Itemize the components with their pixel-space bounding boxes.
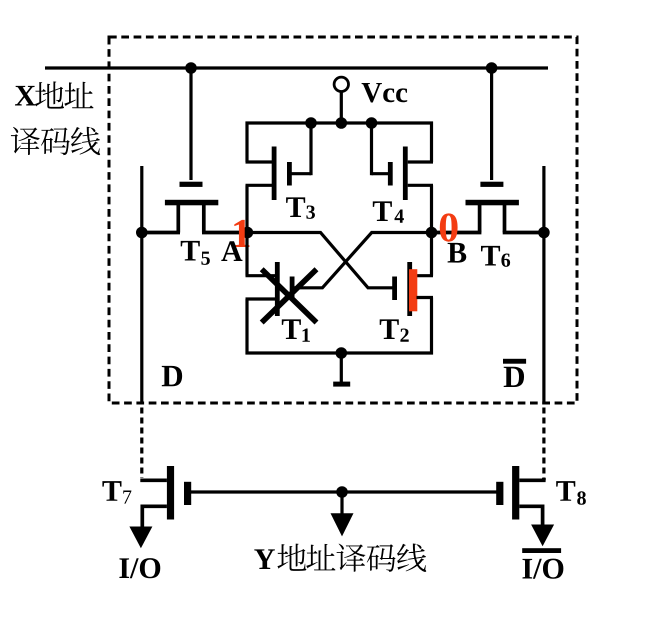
junction dot rail/T4 gate [366,117,378,129]
label I/O-bar overline [522,548,561,553]
transistor T2 gate bar [392,277,397,301]
transistor T5 right wire to node A [202,204,206,233]
junction dot on X line at T6 gate [486,62,498,74]
transistor T3 gate bar [287,162,292,186]
transistor T3 channel bar [272,147,277,201]
junction dot rail/Vcc stem [336,117,348,129]
wire: node B to T1 gate (cross-coupling) [294,233,432,288]
red conducting channel highlight bar on T2 [409,269,417,311]
label D-bar [504,367,524,387]
label: 译码线 (line 2) [11,127,40,155]
junction dot bit line D-bar / T6 [538,227,550,239]
transistor T2 channel bar [407,262,412,316]
node A junction dot [242,227,254,239]
ground bar symbol [333,382,350,387]
arrowhead on Y address line [331,513,354,536]
label T7 [102,481,121,501]
transistor T8 source wire down [519,504,542,508]
red logic value 0 at node B [440,213,458,241]
label T6 [481,246,500,266]
transistor T6 left wire to node B [478,204,482,233]
transistor T1 drain wire from node A [245,233,248,276]
junction dot on Y line [336,486,348,498]
transistor T2 source wire to ground rail [417,296,434,299]
label I/O (left) [119,558,129,578]
label T4 [373,201,392,221]
label T2 [380,319,399,339]
Y line arrow stem [340,492,343,515]
transistor T6 channel bar [466,200,519,206]
label: Vcc [362,83,382,102]
wire: Vcc top rail [246,121,434,124]
memory cell dashed boundary box [109,37,577,403]
wire: X address decode line [45,66,548,69]
transistor T6 gate bar [480,182,503,187]
label B [448,243,467,263]
transistor T6 right wire to bit line DBar [503,231,544,235]
node B junction dot [426,227,438,239]
wire: bit line D dashed segment below box [140,408,143,479]
transistor T7 gate bar [184,482,191,505]
transistor T5 channel bar [165,200,218,206]
Vcc terminal circle [334,77,348,91]
wire: bottom ground rail [246,351,434,354]
wire: Y address decode line [190,490,497,493]
transistor T8 drain wire from bit line D-bar [519,478,545,482]
transistor T4 source wire to node B [408,184,433,187]
transistor T7 drain wire from bit line D [140,478,167,482]
wire: bit line D vertical (solid inside box) [140,166,143,405]
transistor T1 gate bar [290,277,295,301]
wire: Vcc stem [340,92,343,125]
transistor T6 gate wire from X line [490,68,493,180]
label A [221,241,242,261]
wire: node A to T2 gate (cross-coupling) [247,233,393,288]
transistor T1 channel bar [275,262,280,316]
junction dot ground rail [336,347,348,359]
red logic value 1 at node A [234,220,249,247]
label I/O (right, inverted) [523,559,533,579]
label T5 [181,241,200,261]
transistor T4 channel bar [403,147,408,201]
arrowhead to I/O (left) [129,527,152,549]
label D [162,366,182,386]
transistor T4 drain wire from rail [430,122,433,163]
transistor T5 gate bar [180,182,203,187]
label T8 [556,481,575,501]
transistor T8 gate bar [496,482,503,505]
label: Y地址译码线 [254,549,275,569]
transistor T3 gate wire to rail [291,172,311,175]
label: X地址 (line 1) [15,86,36,106]
transistor T3 source wire to node A [246,184,273,187]
ground stem [340,353,343,382]
transistor T2 drain wire from node B [430,233,433,276]
transistor T7 channel bar [167,466,174,520]
transistor T8 channel bar [512,466,519,520]
arrowhead to I/O-bar (right) [531,525,554,547]
label D-bar overline [503,359,526,364]
wire: bit line D-bar vertical (solid inside box) [542,166,545,405]
junction dot on X line at T5 gate [185,62,197,74]
wire: bit line D-bar dashed segment below box [542,408,545,479]
transistor T4 gate bar [388,162,393,186]
transistor T7 source wire down [142,504,167,508]
junction dot bit line D / T5 [136,227,148,239]
transistor T3 drain wire from rail [245,122,248,163]
junction dot rail/T3 gate [305,117,317,129]
label T1 [282,319,301,339]
transistor T1 source wire to ground rail [246,297,276,300]
X cross-out mark over T1 (cut off) [262,269,317,322]
transistor T5 gate wire from X line [189,68,192,180]
transistor T4 gate wire to rail [372,172,389,175]
transistor T5 left wire to bit line D [176,204,180,233]
label T3 [286,197,305,217]
